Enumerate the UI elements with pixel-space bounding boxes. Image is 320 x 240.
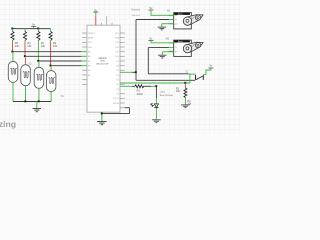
wire V1/N1: servo1 signal via IC pin to switch bbox=[120, 20, 195, 81]
svg-text:Servo: Servo bbox=[178, 41, 183, 43]
svg-text:LED1: LED1 bbox=[160, 91, 166, 93]
svg-text:220Ω: 220Ω bbox=[137, 93, 143, 96]
wire col2 to IC pin A1 bbox=[25, 55, 82, 57]
resistor R4 (col2) bbox=[23, 29, 32, 57]
ground GND1 bbox=[33, 109, 41, 112]
junction dot bbox=[37, 60, 39, 62]
svg-text:10k: 10k bbox=[53, 44, 58, 48]
junction dot bbox=[24, 100, 26, 102]
ground GND5 under R2 bbox=[181, 105, 190, 108]
resistor R1 220 net bbox=[120, 85, 157, 96]
wire col1 down to reed switch S1 bbox=[12, 52, 14, 62]
power 5V symbol P3b (servo2) bbox=[149, 36, 174, 42]
svg-text:Uno: Uno bbox=[100, 60, 105, 63]
svg-text:D0/RX: D0/RX bbox=[113, 103, 120, 105]
servo horn icon bbox=[183, 42, 203, 53]
power 5V symbol P2 (above IC) bbox=[93, 8, 98, 25]
power 5V symbol P1 (left bus) bbox=[31, 22, 36, 28]
svg-text:AREF: AREF bbox=[88, 37, 94, 40]
reed switch S2 (pill 2) bbox=[21, 63, 32, 102]
resistor R2 pulldown bbox=[176, 83, 192, 106]
IC top pin ticks bbox=[101, 16, 112, 25]
svg-text:D1/TX: D1/TX bbox=[113, 98, 120, 100]
toggle switch S1 bbox=[185, 72, 203, 80]
junction dot bbox=[24, 55, 26, 57]
servo M1 bbox=[167, 11, 203, 29]
junction dot bbox=[38, 100, 40, 102]
svg-text:Blue (525nm): Blue (525nm) bbox=[160, 95, 173, 97]
ground GND6 under IC bbox=[97, 122, 106, 125]
junction dot bbox=[37, 28, 39, 30]
LED1 symbol bbox=[151, 103, 159, 119]
ground GND3 servo2 bbox=[158, 55, 166, 58]
svg-text:10k: 10k bbox=[15, 44, 20, 48]
wire col3 down to reed switch S3 bbox=[38, 61, 40, 67]
reed switch S4 (pill 4) bbox=[46, 71, 64, 102]
wire to ground bbox=[36, 102, 38, 109]
svg-text:gnd: gnd bbox=[175, 23, 178, 25]
wire bottom ground bus bbox=[13, 101, 51, 103]
IC U1 Arduino Uno (Rev3) ICSP bbox=[87, 25, 120, 112]
wire IC right D0 to bottom gnd bbox=[101, 108, 130, 115]
wire V2: servo2 mid pin down and right to switch bbox=[148, 48, 195, 75]
svg-text:RESET: RESET bbox=[88, 33, 96, 35]
IC left pins bbox=[82, 33, 87, 84]
svg-text:(Rev3) ICSP: (Rev3) ICSP bbox=[96, 63, 109, 65]
wire top 5V bus bbox=[13, 28, 51, 30]
junction dot bbox=[11, 28, 13, 30]
IC right pins bbox=[120, 33, 125, 103]
LED1 drop wire bbox=[155, 86, 157, 104]
junction dot bbox=[50, 65, 52, 67]
junction dot bbox=[11, 51, 13, 53]
reed switch S1 (pill 1) bbox=[8, 61, 17, 101]
svg-text:zing: zing bbox=[0, 119, 16, 129]
resistor R2 (col4) bbox=[49, 29, 58, 66]
wire col2 down to reed switch S2 bbox=[24, 56, 26, 64]
wire col1 to IC pin A0 bbox=[13, 51, 82, 53]
svg-text:VIN: VIN bbox=[88, 47, 92, 49]
servo M2 gnd wire bbox=[162, 52, 173, 55]
IC right pin labels bbox=[113, 33, 120, 105]
svg-text:sig: sig bbox=[175, 47, 177, 49]
resistor R3 (col3) bbox=[37, 29, 46, 61]
IC bottom ground wire bbox=[101, 112, 103, 121]
svg-text:10k: 10k bbox=[27, 44, 32, 48]
svg-text:Servo: Servo bbox=[178, 14, 183, 16]
IC left pin labels bbox=[88, 33, 96, 77]
svg-text:gnd: gnd bbox=[175, 51, 178, 53]
reed switch S3 (pill 3) bbox=[34, 67, 44, 101]
resistor R5 (col1) bbox=[11, 29, 20, 52]
power 5V symbol P4 (switch) bbox=[204, 63, 214, 74]
servo horn icon bbox=[183, 15, 203, 26]
wire col4 to IC pin A3 bbox=[51, 65, 82, 67]
svg-text:Rotation: Rotation bbox=[132, 14, 141, 17]
svg-text:10k: 10k bbox=[41, 44, 46, 48]
svg-text:Motor(s): Motor(s) bbox=[131, 9, 140, 12]
servo M2 bbox=[166, 38, 203, 56]
servo M1 gnd wire bbox=[162, 24, 174, 27]
wire col4 down to reed switch S4 bbox=[50, 66, 52, 71]
svg-text:SDA: SDA bbox=[115, 37, 120, 40]
svg-text:sig: sig bbox=[175, 19, 177, 21]
background grid bbox=[0, 0, 240, 134]
ground GND2 servo1 bbox=[158, 27, 166, 30]
power 5V symbol P3 (servo1) bbox=[149, 6, 174, 15]
wire col3 to IC pin A2 bbox=[38, 60, 81, 62]
ground GND4 under LED bbox=[152, 120, 161, 123]
wire N2: IC pin to pulldown node (green) bbox=[120, 74, 190, 84]
